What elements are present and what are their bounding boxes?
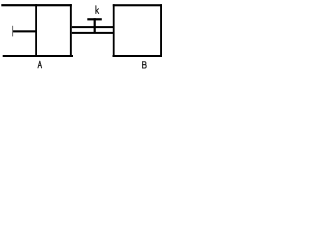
wire ground line under block A	[3, 55, 73, 57]
block B top edge	[113, 4, 162, 6]
plunger handle tick	[12, 26, 13, 37]
block B right edge	[160, 4, 162, 57]
wire channel lower line between A and B	[72, 32, 113, 34]
wire channel upper line between A and B	[72, 26, 113, 28]
block B bottom edge	[113, 55, 163, 57]
spring marker stem	[94, 18, 96, 33]
label B	[143, 62, 147, 68]
block B left edge	[113, 4, 115, 57]
spring marker crossbar	[87, 18, 102, 20]
background	[0, 0, 168, 76]
block A left edge	[35, 4, 37, 57]
label A	[38, 61, 42, 68]
block A right edge	[70, 4, 72, 57]
wire top wall of launcher and block A top edge	[1, 4, 72, 6]
label k spring constant	[96, 6, 99, 14]
plunger rod into block A	[13, 30, 37, 32]
